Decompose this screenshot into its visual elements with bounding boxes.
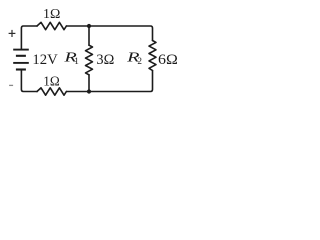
node B junction dot bottom <box>87 89 91 93</box>
svg-text:2: 2 <box>137 56 142 66</box>
resistor 1ohm top zigzag <box>37 22 66 29</box>
wire bottom-middle: node B to bottom resistor <box>66 91 89 93</box>
battery plate short upper <box>16 55 26 57</box>
wire top-right: node A to top-right corner <box>89 26 153 41</box>
svg-text:1: 1 <box>74 56 79 66</box>
svg-text:3Ω: 3Ω <box>96 52 114 68</box>
node A junction dot top <box>87 24 91 28</box>
wire right-bottom: R2 to bottom wire <box>89 71 153 92</box>
svg-text:12V: 12V <box>32 52 58 68</box>
svg-text:1Ω: 1Ω <box>43 6 60 21</box>
resistor R1 3ohm branch lead top <box>88 26 90 45</box>
wire top-middle: top resistor to node A <box>66 25 89 27</box>
battery plate long lower <box>13 62 29 64</box>
svg-text:1Ω: 1Ω <box>43 73 60 88</box>
wire bottom-left: bottom resistor to battery bottom <box>21 70 37 91</box>
battery plate long top <box>13 49 29 51</box>
label plus terminal <box>9 30 16 37</box>
label minus terminal <box>9 84 13 86</box>
wire top-left: battery top to top resistor <box>21 26 37 49</box>
resistor 1ohm bottom zigzag <box>37 88 66 95</box>
resistor R2 6ohm zigzag <box>149 41 156 71</box>
resistor R1 3ohm branch lead bottom <box>88 75 90 92</box>
battery plate short bottom <box>16 68 26 70</box>
svg-text:6Ω: 6Ω <box>158 52 178 68</box>
resistor R1 3ohm zigzag <box>86 45 93 75</box>
